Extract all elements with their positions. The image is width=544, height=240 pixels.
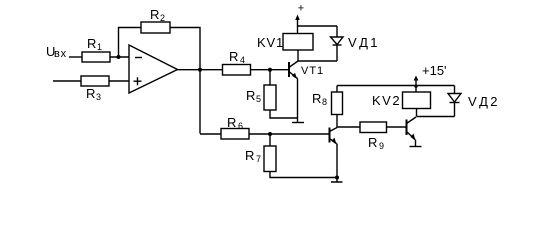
svg-text:вх: вх — [54, 48, 67, 60]
svg-text:R: R — [245, 148, 254, 163]
svg-text:VT1: VT1 — [301, 65, 324, 77]
svg-text:R: R — [312, 91, 321, 106]
svg-text:R: R — [368, 135, 377, 150]
svg-text:+15': +15' — [422, 63, 447, 78]
svg-text:3: 3 — [96, 92, 101, 102]
svg-text:KV1: KV1 — [257, 35, 284, 50]
svg-text:9: 9 — [379, 141, 384, 151]
svg-text:7: 7 — [256, 154, 261, 164]
svg-text:KV2: KV2 — [372, 93, 401, 108]
svg-text:+: + — [298, 3, 304, 15]
svg-text:VД2: VД2 — [468, 94, 500, 109]
svg-text:8: 8 — [322, 97, 327, 107]
svg-text:VД1: VД1 — [348, 35, 380, 50]
svg-text:R: R — [150, 7, 159, 22]
svg-text:6: 6 — [238, 121, 243, 131]
svg-text:R: R — [229, 49, 238, 64]
svg-text:4: 4 — [240, 55, 245, 65]
svg-text:5: 5 — [256, 94, 261, 104]
svg-text:R: R — [86, 86, 95, 101]
svg-text:R: R — [87, 36, 96, 51]
svg-text:R: R — [246, 88, 255, 103]
svg-text:2: 2 — [160, 13, 165, 23]
svg-text:1: 1 — [97, 42, 102, 52]
svg-text:R: R — [227, 115, 236, 130]
